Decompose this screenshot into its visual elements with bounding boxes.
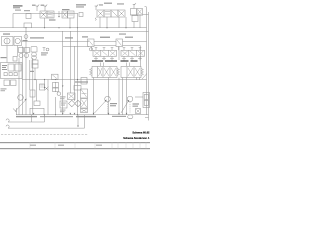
check valve D1	[69, 100, 76, 107]
verticals left group	[19, 47, 26, 115]
valve stack VS2 top bars	[121, 60, 138, 62]
label above y41 left	[30, 37, 44, 38]
terminal boxes TB1	[4, 80, 10, 86]
wire left drop of top unit	[12, 14, 14, 28]
valve V2 second chamber	[68, 11, 75, 18]
arrows onto bottom bus	[33, 113, 128, 115]
right bottom marks	[145, 115, 149, 121]
pilot valve PV2 drains	[124, 56, 140, 60]
valve V4	[116, 39, 123, 47]
label above VB1	[104, 3, 124, 5]
small box tag1	[13, 57, 17, 62]
pilot valve PV1 solenoids	[95, 48, 114, 51]
valve stack VS2 body	[121, 67, 141, 78]
bus line T	[0, 30, 149, 32]
label above V2	[62, 9, 70, 10]
vertical x140	[140, 46, 142, 67]
vertical x119 from V4	[118, 47, 120, 61]
box on vertical x33	[30, 90, 35, 97]
line y46	[63, 45, 89, 47]
valve V1 second chamber	[47, 11, 54, 18]
valve V2 body	[62, 11, 68, 18]
wire VS2 drops	[123, 78, 140, 115]
valve stack VS1 top bars	[92, 60, 117, 62]
valve V3	[88, 39, 95, 47]
center cluster labels	[60, 96, 66, 112]
label M1	[3, 33, 10, 34]
vertical x70	[69, 31, 71, 93]
vertical main center left	[62, 31, 64, 115]
valve box with X	[68, 93, 76, 100]
verticals mid	[48, 80, 56, 115]
lever arrow C1	[95, 101, 107, 114]
dashed drop C1	[107, 102, 109, 114]
measuring point MP3	[95, 5, 99, 10]
filter F1 cluster	[19, 48, 24, 53]
marks near x44 y48	[43, 48, 46, 52]
filter F2	[31, 47, 37, 53]
throttle circle C1	[105, 96, 111, 102]
vertical right edge 2	[148, 12, 150, 115]
lever arrow VS2	[142, 74, 147, 80]
pilot valve PV1 body	[93, 50, 117, 56]
component tag right of V2	[79, 13, 83, 17]
title block ticks	[30, 143, 146, 149]
valve V1 arrows	[41, 12, 46, 17]
wire V3 to PV1	[92, 47, 119, 51]
wire V2 to bus	[69, 18, 71, 28]
tank line B with curl	[8, 127, 85, 129]
valve stack VS1 body	[92, 67, 117, 78]
wire double line	[94, 41, 116, 46]
spring VB1 left	[95, 18, 97, 21]
label under L line	[75, 81, 88, 82]
arrow from L at x44	[44, 80, 46, 89]
node arrow A1	[58, 11, 60, 17]
label right of C2	[133, 103, 140, 106]
label G1	[23, 40, 28, 41]
svg-text:Schema Sondervar. 1: Schema Sondervar. 1	[123, 136, 150, 140]
diagonal tick bottom-left	[13, 109, 17, 113]
drain ellipse	[128, 115, 133, 119]
spring VS1 right	[117, 69, 120, 76]
vertical x36	[35, 80, 37, 102]
instrument block IB1 lower marks	[4, 73, 7, 76]
box with X BR1	[136, 109, 141, 114]
tank line A with curl	[8, 121, 45, 123]
svg-text:Schema 60.62: Schema 60.62	[132, 131, 150, 135]
accumulator box AC1	[143, 93, 150, 108]
line y41	[22, 40, 89, 42]
vertical x30	[29, 60, 31, 90]
gauge G1	[24, 35, 28, 39]
measuring point MP1	[36, 5, 40, 11]
wire VS1 drops	[94, 78, 109, 115]
cylinder block CY1	[81, 99, 88, 109]
throttle circle C2	[127, 96, 133, 102]
pilot valve PV1 drains	[96, 56, 112, 60]
gauge G3	[89, 48, 92, 51]
vertical x33	[32, 58, 34, 115]
measuring point MP4	[133, 3, 136, 9]
bottom bus line	[16, 114, 149, 116]
pump P1 box	[2, 37, 14, 46]
stacked boxes SB1	[32, 60, 38, 64]
valve block V5 top-right	[131, 9, 137, 16]
wire V5 drops	[134, 15, 140, 28]
spring VS1 left	[90, 69, 93, 76]
bus line P	[0, 27, 147, 29]
component small box K1	[26, 14, 31, 19]
pilot valve PV2 solenoids	[123, 48, 142, 51]
vertical x74	[74, 46, 76, 101]
dashed separator	[1, 133, 88, 135]
label near ellipse	[112, 116, 126, 117]
tick top right	[143, 7, 149, 15]
cross marks x44	[45, 87, 49, 91]
small box under L	[74, 86, 81, 91]
vertical main center right	[77, 14, 79, 115]
circle mid	[57, 92, 60, 95]
label MP1	[32, 5, 36, 6]
label left margin	[1, 88, 7, 91]
measuring point MP2	[44, 5, 48, 11]
label under bottom bus left	[16, 116, 96, 117]
box on bus K2	[24, 23, 32, 28]
valve bank VB1 arrows	[98, 11, 124, 16]
bus line L	[22, 79, 147, 81]
lever arrow G2	[15, 100, 26, 112]
center cluster box	[60, 101, 67, 108]
pump P1 circle	[4, 38, 10, 44]
tank loop verticals	[32, 115, 45, 122]
title block top line	[0, 142, 150, 144]
instrument block IB1	[1, 63, 23, 79]
label right of F2	[41, 52, 48, 55]
motor M1 circle	[15, 38, 20, 43]
label text top-left unit	[13, 5, 30, 11]
wire to AC1	[135, 96, 143, 98]
label under V1	[49, 19, 56, 20]
wire VB1 drops	[100, 17, 126, 28]
wire top feed line	[13, 13, 78, 15]
box x34 y101	[34, 101, 40, 106]
tank loop right vertical	[84, 115, 86, 128]
pilot valve PV2 body	[121, 50, 145, 56]
junction X1	[25, 28, 27, 32]
gauge G2 circle	[18, 95, 24, 101]
cluster box CL1	[53, 83, 59, 88]
label under bus right	[119, 34, 126, 35]
check valve D2	[75, 100, 82, 107]
spring VS2 right	[141, 69, 144, 76]
arrow drop x78	[77, 115, 79, 127]
lever arrow C2	[121, 101, 129, 113]
wire pump drops	[7, 46, 18, 63]
wire V1 to bus	[44, 18, 46, 28]
title block small labels	[30, 145, 102, 146]
vertical right edge	[146, 7, 148, 115]
valve bank VB1	[97, 10, 104, 17]
wire G1 drop	[25, 31, 27, 46]
wire right of V4	[123, 41, 147, 46]
motor M1 box	[14, 37, 22, 46]
title text line 1	[123, 131, 150, 140]
label CMB	[100, 37, 110, 38]
small component box mid	[40, 84, 45, 90]
title block bottom line	[0, 148, 150, 150]
label	[30, 71, 34, 72]
block on L line	[52, 74, 59, 79]
wire SB1 drop	[34, 68, 36, 80]
cylinder upper box	[81, 89, 88, 98]
box on bottom bus	[30, 108, 44, 114]
wire x119 lower	[118, 78, 120, 115]
label text top-mid	[76, 4, 86, 7]
small box column top	[81, 78, 87, 85]
valve V1 body	[40, 11, 47, 18]
label right of C1	[110, 103, 117, 106]
dashed drop C2	[129, 102, 131, 114]
label MP2	[41, 5, 45, 6]
